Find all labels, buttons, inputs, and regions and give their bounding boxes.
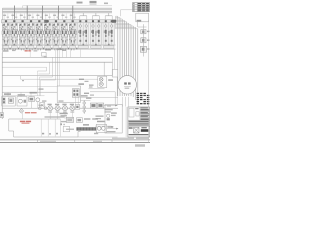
block text [137,20,142,22]
center text 2 [61,115,67,116]
cooler hatched band [77,128,97,131]
tiny text [44,56,47,57]
bus feed drops [14,6,16,24]
wire upper [81,97,118,99]
vertical chain [83,100,85,114]
revision table top-right [133,3,150,12]
manifold end block [112,20,116,23]
small box under bank [42,53,47,57]
diamond check symbol [19,109,24,114]
tank inner box [63,126,69,131]
junction box [112,70,118,78]
note text under bank 1 [3,50,9,52]
right label 2 [147,40,149,41]
left frame vertical [1,53,3,119]
valve section W2 [90,13,102,48]
drop from block [137,22,139,27]
text rows right 2 [96,118,102,119]
cluster inside big box [107,114,110,117]
mid return line 4 [2,75,112,77]
dark arrow blob [141,129,149,132]
text near pump 2 [85,81,89,82]
label text top-3 [104,3,108,5]
filter cluster in tank [72,89,79,98]
wire below junction box [116,77,118,104]
big tank stepped outline [9,119,81,137]
reservoir box [57,86,80,102]
right pilot valve V2 [141,38,146,43]
cooler label [83,124,89,126]
valve section 9 [69,14,77,51]
valve section 6 [44,14,52,51]
note u4 [62,50,66,51]
pump outlet 2 [90,91,115,93]
tick marks left of cooler [61,123,62,125]
tank mark 1 [42,133,44,135]
drops from valve bank [29,49,31,57]
L1 label [4,93,11,95]
note text under bank 3 [57,49,63,51]
pump text a [89,85,94,86]
main pump row [44,107,90,109]
mid return line 2 [2,61,112,63]
label above [81,95,88,97]
wire from table to bus [121,9,133,11]
pump label 1 [48,104,52,106]
valve section 4 [27,14,35,51]
pump sublabel 1 [48,112,52,113]
text above suction [39,88,44,89]
tank mark 3 [56,133,58,135]
label near box [84,118,90,119]
pump label 4 [70,104,74,106]
note u2 [12,50,15,51]
title text rows right-top [141,107,148,110]
pump sublabel 2 [56,112,60,113]
stub L1 [7,92,9,96]
small comp right of pumps [75,105,80,110]
L2 label [18,94,25,96]
pump text c [84,93,89,94]
title bottom text row [129,134,149,135]
text under title block [112,137,134,140]
right label 1 [147,31,149,32]
tb small box 2 [136,112,139,116]
text rows right 1 [96,116,104,117]
tank label [78,83,84,85]
top supply bus lines [3,7,113,9]
pilot pump cluster [103,62,105,76]
tank inner label [61,121,67,122]
rail boundary ticks [9,48,10,50]
frame scale text 2 [93,141,102,142]
suction line [2,91,57,93]
center-right valve cluster [90,103,96,108]
stub below diamond [22,113,24,119]
text near pump [79,79,84,80]
small box above cooler [76,118,82,123]
far-left margin component [0,113,3,118]
branch line y79 [21,78,98,80]
pump sublabel 3 [63,112,67,113]
big box top text [107,105,111,106]
right mid drop [112,57,114,75]
mid return line 3 (short) [2,66,46,68]
double drop lines [57,48,59,86]
cascade wires left-center [46,67,48,71]
box text 2 [111,115,116,116]
staircase left vertical [115,16,117,29]
tiny label 4 [22,80,24,81]
big box left of title block [105,105,122,134]
label b [59,100,64,101]
right frame vertical [148,20,150,142]
frame tick marks [37,140,39,143]
red note under valve bank [25,50,28,52]
tank top small text [45,116,65,117]
text under line [105,109,113,110]
label a [42,100,46,101]
valve section 2 [10,14,18,51]
note text under bank 2 [45,49,51,51]
inline check valves row [38,107,41,110]
motor text [125,88,130,89]
electric motor M [118,76,136,94]
mid return line 1 [2,56,112,58]
pump sublabel 4 [70,112,74,113]
pump drops to tank [49,111,51,119]
cooler hatch lines [79,128,94,131]
valve section 8 [60,14,68,51]
left bus drop [2,8,4,53]
thin vert left of title block [125,107,127,137]
wire into junction box [114,50,116,70]
tank top edge [9,118,61,120]
line through clusters [2,107,118,109]
upper suction header [2,86,57,88]
pump label [108,79,113,81]
marks under filter [94,133,98,134]
center text 1 [60,113,68,115]
arrowed line right [104,105,118,107]
frame scale text [40,141,56,142]
pump outlet 1 [89,88,105,90]
dark port block on manifold [44,20,48,23]
wires below motor [122,97,124,107]
cluster label [86,97,91,99]
right column wire [142,24,144,56]
pump text d [90,95,94,96]
crossed box [134,127,139,133]
valve section 5 [35,14,43,51]
filter label b [107,126,113,127]
big box bottom text [107,131,116,132]
bottom frame line 1 [0,139,150,141]
right label 3 [147,48,149,49]
bottom frame line 2 [0,141,150,143]
second line [2,95,44,97]
valve section 1 [2,14,10,51]
stub L2 [20,92,22,96]
pump label 3 [62,104,66,106]
stub2 [77,96,79,105]
row label [39,105,44,106]
connection list grid [137,93,140,94]
right vertical wire bus [117,16,119,96]
return filter unit [96,124,106,132]
upper bus line [23,5,113,7]
upper line to arrow [95,125,111,127]
tank mark 2 [49,133,51,134]
right pilot valve V1 [141,30,146,34]
line right [107,128,118,130]
stub L3 [30,92,32,97]
title block [128,107,150,137]
title middle dense band [129,120,149,123]
right pilot valve V3 [140,46,146,52]
motor inner line [124,85,131,87]
pump label 2 [55,104,59,106]
tank internal verticals [40,119,42,136]
label text top-2 [90,1,97,3]
L3 label [30,92,37,94]
block under revision table [136,13,149,22]
left cluster L1 [2,96,15,106]
valve section W1 [77,13,89,48]
label text top-1 [77,2,83,4]
red note R3 [20,121,25,123]
title bottom-left dashes [129,127,133,128]
pump text b [89,86,93,87]
red note R2 [25,112,30,113]
valve section W3 [103,13,115,48]
stub [75,96,77,105]
left cluster L2 [17,97,27,106]
valve bank bottom rails [2,44,116,46]
small gray box center [66,117,73,122]
valve section 3 [19,14,27,51]
valve section 7 [52,14,60,51]
label near box 2 [92,118,98,119]
tb white box [129,108,134,117]
text under line 2 [105,111,111,112]
filter label a [97,121,105,123]
box text 1 [111,112,117,113]
long line above frame [78,136,118,138]
bus jog [22,6,24,8]
label above tank box [66,129,74,130]
page number smudge [135,144,145,146]
valve bank top manifold [2,20,116,23]
note u3 [34,50,38,51]
